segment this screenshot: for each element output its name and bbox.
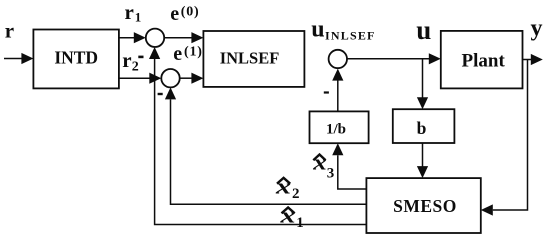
svg-text:1/b: 1/b [326,121,346,137]
svg-text:1: 1 [296,215,304,231]
svg-text:r: r [5,19,14,43]
label r1 [125,0,142,25]
label r [5,19,14,43]
block INLSEF [203,31,304,87]
wire y output from Plant [523,54,543,65]
summing junction S2 [161,69,179,87]
wire r1 from INTD to S1 [119,32,146,43]
label r2 with minus [122,48,143,74]
svg-text:u: u [311,17,324,43]
svg-text:INLSEF: INLSEF [325,29,376,43]
label x2hat [275,174,300,202]
wire u branch down into b [417,59,428,109]
svg-text:(1): (1) [184,45,203,60]
svg-text:INTD: INTD [54,47,98,67]
svg-text:e: e [170,3,179,25]
svg-text:r: r [122,48,131,72]
summing junction S3 [329,50,347,68]
svg-text:(0): (0) [181,4,200,19]
wire x2hat from SMESO to S2 [165,87,367,204]
block SMESO [366,178,480,233]
svg-text:b: b [417,118,427,138]
wire r2 from INTD to S2 [119,73,161,84]
summing junction S1 [146,29,164,47]
svg-text:1: 1 [135,10,142,25]
label x3hat [312,150,334,182]
minus sign at S3 [324,91,329,93]
wire r input with arrow into INTD [4,53,33,64]
wire u_INLSEF from S3 to Plant [347,53,441,64]
svg-text:e: e [173,43,182,65]
block b [393,109,455,143]
wire e(1) from S2 to INLSEF [180,73,204,84]
block Plant [441,31,523,89]
block INTD [33,30,119,89]
svg-text:y: y [531,16,543,42]
svg-text:Plant: Plant [462,50,506,71]
svg-text:SMESO: SMESO [393,196,457,216]
label e(1) [173,43,202,65]
label u_INLSEF [311,17,375,43]
minus sign at S2 [158,93,163,95]
label y [531,16,543,42]
svg-text:r: r [125,0,134,24]
svg-text:2: 2 [292,186,300,202]
label u [416,15,431,45]
wire y feedback to SMESO [481,60,528,216]
svg-text:u: u [416,15,431,45]
wire b to SMESO [417,143,428,178]
svg-text:INLSEF: INLSEF [220,49,280,68]
label x1hat [279,202,304,231]
svg-text:3: 3 [327,165,335,181]
svg-text:x: x [279,202,295,227]
wire e(0) from S1 to INLSEF [164,32,203,43]
block 1/b [310,111,369,143]
svg-text:2: 2 [132,60,139,75]
wire x1hat from SMESO to S1 [149,47,366,225]
wire x3hat from SMESO to 1/b [332,143,366,189]
label e(0) [170,3,199,25]
wire 1/b to S3 minus input [332,69,343,112]
